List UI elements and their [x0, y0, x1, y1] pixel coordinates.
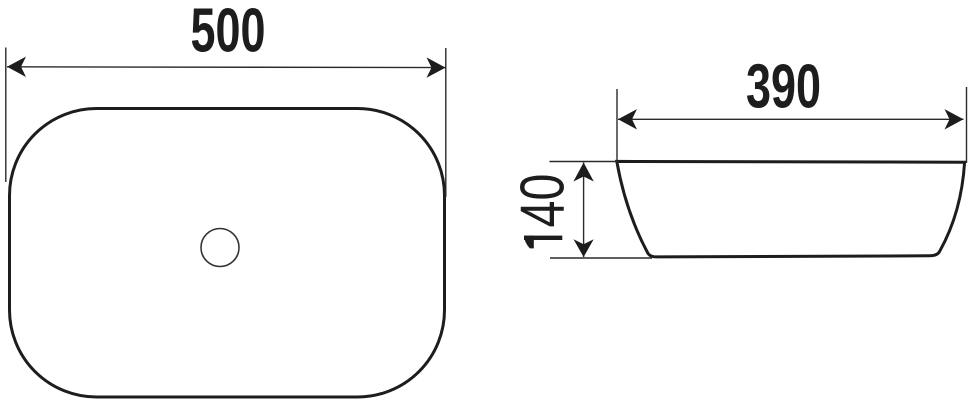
dim 390 dimension line: [618, 118, 964, 120]
dim 390 extension line left: [616, 89, 618, 160]
drain hole circle: [201, 229, 239, 267]
basin side view outline: [617, 161, 965, 257]
dim 140 label digit 1 stem (rotated): [524, 236, 562, 240]
svg-text:390: 390: [746, 53, 821, 122]
dim 140 arrow bottom: [574, 239, 594, 257]
svg-text:40: 40: [508, 174, 577, 228]
dim 500 arrow right: [427, 57, 446, 77]
dim 140 arrow top: [573, 163, 593, 182]
dim 140 extension line top: [550, 161, 619, 163]
dim 390 arrow left: [618, 109, 637, 129]
dim 500 extension line left: [5, 48, 7, 183]
basin top view outline: [10, 109, 445, 398]
dim 500 dimension line: [7, 66, 446, 69]
svg-text:500: 500: [191, 0, 266, 65]
dim 140 dimension line: [583, 163, 585, 258]
dim 390 extension line right: [966, 87, 968, 163]
dim 500 extension line right: [445, 48, 447, 197]
dim 390 arrow right: [945, 109, 964, 129]
dim 500 arrow left: [7, 57, 26, 77]
dim 140 label digit 1 flag (rotated): [524, 236, 534, 249]
dim 140 extension line bottom: [550, 257, 652, 259]
